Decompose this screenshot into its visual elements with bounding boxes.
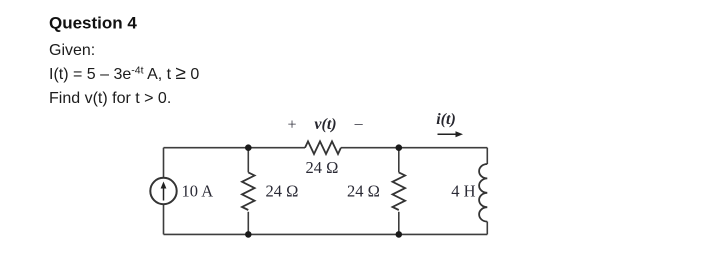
node bottom-left dot	[245, 231, 252, 238]
svg-text:24 Ω: 24 Ω	[347, 182, 380, 201]
svg-text:Given:: Given:	[49, 42, 95, 59]
node top-left dot	[245, 144, 252, 151]
svg-text:4 H: 4 H	[451, 182, 475, 201]
wire R1 top	[247, 148, 249, 173]
resistor R2 24ohm horizontal top	[305, 141, 341, 154]
wire R3 bottom	[398, 212, 400, 235]
node top-right dot	[396, 144, 403, 151]
current source 10A	[150, 178, 176, 204]
svg-text:+: +	[287, 117, 296, 134]
svg-text:24 Ω: 24 Ω	[306, 158, 339, 177]
svg-text:10 A: 10 A	[182, 182, 214, 201]
svg-text:24 Ω: 24 Ω	[266, 182, 299, 201]
wire inductor bottom	[486, 222, 488, 235]
svg-text:Question 4: Question 4	[49, 14, 137, 33]
wire R3 top	[398, 148, 400, 173]
arrow i(t)	[438, 133, 458, 135]
inductor L1 4H	[479, 164, 487, 222]
svg-text:i(t): i(t)	[436, 111, 456, 128]
svg-text:–: –	[354, 116, 364, 133]
wire left bottom	[163, 205, 165, 235]
svg-text:Find v(t) for t > 0.: Find v(t) for t > 0.	[49, 90, 171, 107]
node bottom-right dot	[396, 231, 403, 238]
wire left top	[163, 148, 165, 178]
wire bottom	[164, 233, 488, 235]
wire inductor top	[486, 148, 488, 164]
wire R1 bottom	[247, 212, 249, 235]
svg-text:v(t): v(t)	[314, 116, 336, 133]
resistor R1 24ohm vertical left	[242, 172, 255, 210]
wire top-left segment	[164, 147, 306, 149]
svg-text:I(t) = 5 – 3e-4t A, t ≥ 0: I(t) = 5 – 3e-4t A, t ≥ 0	[49, 63, 199, 84]
resistor R3 24ohm vertical right	[392, 172, 405, 210]
wire top-right segment	[341, 147, 487, 149]
